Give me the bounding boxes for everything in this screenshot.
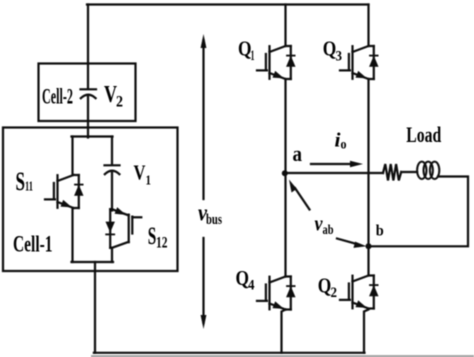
svg-text:12: 12 — [156, 235, 168, 252]
svg-text:ab: ab — [323, 223, 334, 238]
svg-text:a: a — [293, 141, 303, 166]
svg-text:Q: Q — [318, 274, 332, 298]
box Cell-1 — [3, 128, 178, 272]
transistor Q4 — [257, 277, 296, 310]
transistor Q3 — [340, 46, 379, 79]
inductor (load) coils — [417, 162, 426, 179]
wire inductor to right edge corner — [370, 177, 468, 247]
arrow v_ab pointing to node b — [337, 239, 355, 244]
wire Q3 leg from top bus — [367, 5, 369, 47]
wire top bus — [87, 3, 369, 5]
svg-text:Q: Q — [323, 37, 337, 61]
wire resistor to inductor — [401, 171, 417, 173]
wire cell-1 right branch lower — [111, 248, 113, 262]
wire Q1 emitter down to node a — [284, 79, 286, 173]
wire bottom bus — [94, 352, 365, 354]
wire Q2 emitter to bottom bus — [364, 310, 369, 353]
wire below capacitor V2 down to cell-1 loop — [87, 97, 89, 138]
svg-text:Load: Load — [406, 122, 441, 147]
wire node a to load — [285, 172, 383, 174]
svg-text:S: S — [16, 167, 26, 196]
capacitor V2 curved bottom plate — [81, 95, 96, 99]
wire Q3 emitter down through crossing to node b — [367, 79, 369, 246]
wire cell-1 inner loop top — [72, 135, 113, 137]
node a junction dot — [282, 170, 288, 176]
wire left drop from top bus into Cell-2 — [87, 5, 89, 89]
node b junction dot — [366, 243, 372, 249]
arrow i_o — [311, 163, 353, 165]
wire cell-1 left branch upper — [71, 137, 73, 176]
transistor S11 — [45, 175, 84, 208]
capacitor V1 top plate — [105, 164, 120, 166]
svg-text:b: b — [376, 223, 384, 240]
box Cell-2 — [39, 64, 136, 122]
svg-text:1: 1 — [146, 174, 152, 189]
svg-text:v: v — [315, 211, 323, 236]
svg-text:11: 11 — [25, 180, 33, 195]
svg-text:Cell-2: Cell-2 — [42, 84, 73, 109]
capacitor V1 curved bottom plate — [105, 171, 120, 175]
svg-text:2: 2 — [116, 94, 123, 111]
arrow v_bus double-headed — [202, 40, 204, 199]
scan artifact grey strip bottom — [91, 355, 474, 357]
arrow v_ab pointing to node a — [295, 188, 310, 210]
svg-text:V: V — [134, 161, 146, 185]
transistor Q2 — [340, 276, 379, 309]
wire node a to Q4 collector — [284, 173, 286, 277]
wire Q1 leg from top bus — [284, 5, 286, 47]
svg-text:3: 3 — [336, 49, 343, 65]
wire Q4 emitter to bottom bus — [282, 310, 286, 353]
wire cell-1 left branch lower — [71, 208, 73, 262]
svg-text:bus: bus — [206, 212, 222, 228]
svg-text:o: o — [341, 138, 347, 153]
capacitor V2 (polarized) top plate — [81, 88, 97, 90]
wire node b to Q2 collector — [367, 246, 369, 275]
svg-text:Cell-1: Cell-1 — [13, 232, 53, 257]
svg-text:4: 4 — [248, 278, 255, 294]
svg-text:2: 2 — [331, 285, 338, 301]
transistor Q1 — [257, 46, 296, 79]
wire drop from cell-1 loop to bottom bus — [94, 262, 95, 353]
svg-text:Q: Q — [236, 266, 250, 290]
wire cell-1 inner loop bottom — [72, 261, 114, 263]
svg-text:1: 1 — [251, 48, 255, 64]
wire between capacitor V1 and S12 — [111, 173, 113, 211]
transistor S12 (mirrored, gate right, diode left pointing down) — [106, 207, 142, 248]
svg-text:Q: Q — [238, 37, 252, 61]
wire cell-1 right branch upper — [111, 137, 113, 165]
resistor (load) zigzag — [383, 164, 401, 181]
